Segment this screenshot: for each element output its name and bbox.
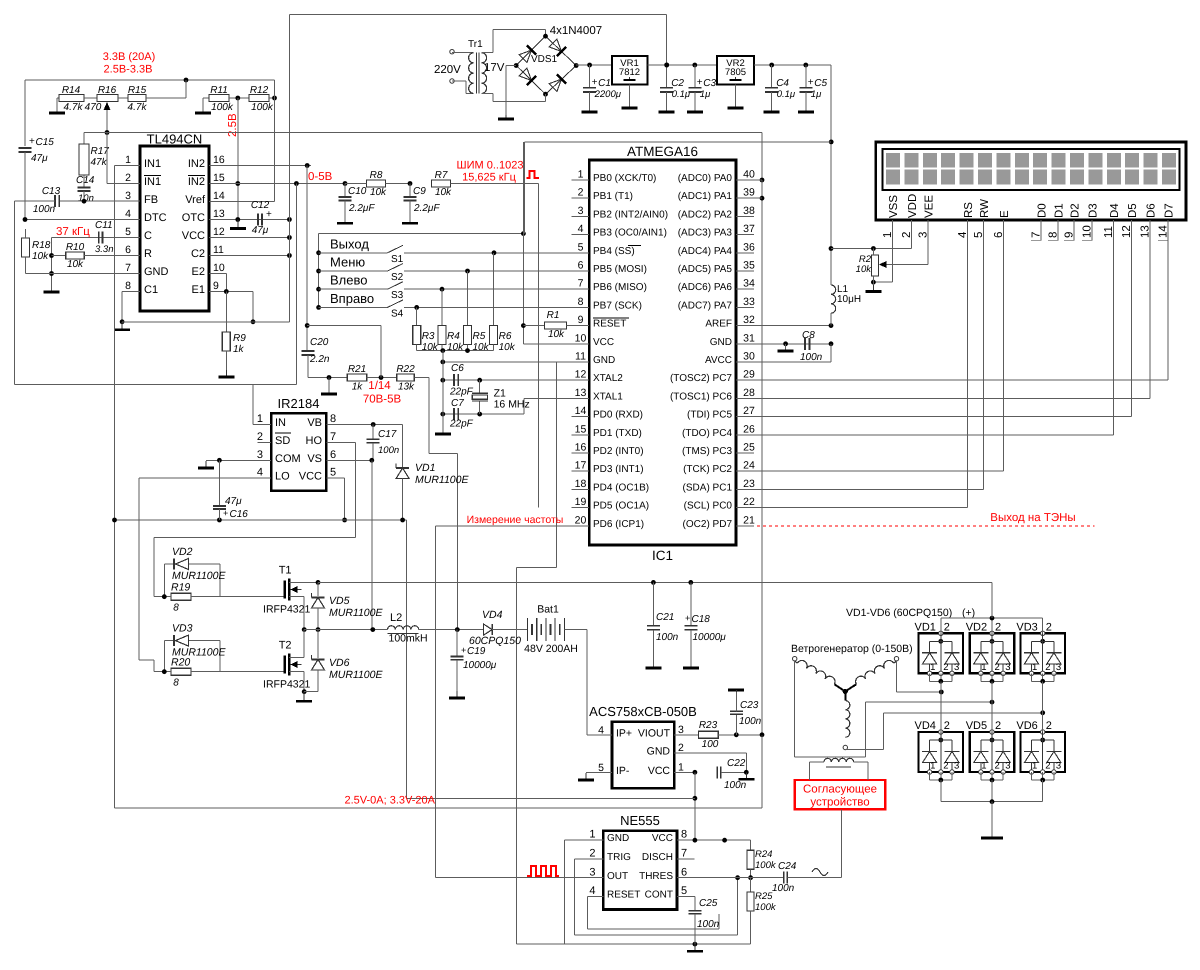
svg-text:VD3: VD3 <box>172 623 193 635</box>
svg-text:40: 40 <box>743 169 755 181</box>
svg-text:D5: D5 <box>1127 203 1139 218</box>
svg-text:VCC: VCC <box>299 471 322 483</box>
svg-text:R21: R21 <box>348 364 366 375</box>
svg-text:2: 2 <box>589 848 595 860</box>
svg-text:37: 37 <box>743 223 755 235</box>
svg-text:2: 2 <box>1045 662 1050 673</box>
svg-text:VEE: VEE <box>923 195 935 218</box>
svg-text:16: 16 <box>575 442 587 454</box>
svg-text:7812: 7812 <box>619 67 640 78</box>
svg-text:10000μ: 10000μ <box>463 660 497 671</box>
svg-text:C8: C8 <box>802 330 815 341</box>
svg-text:IN1: IN1 <box>144 158 161 170</box>
svg-text:6: 6 <box>578 260 584 272</box>
svg-text:100mkH: 100mkH <box>389 633 428 645</box>
svg-text:15: 15 <box>213 172 225 184</box>
svg-text:Меню: Меню <box>330 255 365 270</box>
svg-text:Согласующее: Согласующее <box>803 784 877 796</box>
svg-text:R3: R3 <box>422 331 435 342</box>
svg-text:7: 7 <box>330 431 336 443</box>
svg-text:10k: 10k <box>435 187 452 198</box>
svg-text:C: C <box>144 230 152 242</box>
svg-text:22pF: 22pF <box>449 387 474 398</box>
svg-text:R24: R24 <box>755 849 772 860</box>
svg-text:220V: 220V <box>434 64 461 76</box>
svg-text:4: 4 <box>578 223 584 235</box>
svg-text:28: 28 <box>743 387 755 399</box>
svg-text:13k: 13k <box>398 382 415 393</box>
svg-text:R19: R19 <box>171 582 190 594</box>
svg-text:33: 33 <box>743 296 755 308</box>
svg-text:C4: C4 <box>776 78 789 89</box>
svg-text:470: 470 <box>85 102 102 113</box>
svg-text:4: 4 <box>589 885 595 897</box>
svg-text:2: 2 <box>995 720 1001 732</box>
svg-text:VD2: VD2 <box>966 621 987 633</box>
svg-text:PD1 (TXD): PD1 (TXD) <box>593 428 642 439</box>
svg-text:IN1: IN1 <box>144 176 161 188</box>
svg-text:R16: R16 <box>98 85 117 96</box>
svg-text:(ADC0) PA0: (ADC0) PA0 <box>678 173 733 184</box>
svg-text:3: 3 <box>954 761 959 772</box>
svg-text:+: + <box>685 613 690 623</box>
svg-text:C2: C2 <box>671 78 684 89</box>
svg-text:100n: 100n <box>697 919 720 930</box>
svg-text:GND: GND <box>144 266 169 278</box>
svg-text:9: 9 <box>213 280 219 292</box>
svg-text:14: 14 <box>575 405 587 417</box>
svg-text:4: 4 <box>125 208 131 220</box>
svg-text:34: 34 <box>743 278 755 290</box>
svg-text:36: 36 <box>743 241 755 253</box>
svg-text:IN: IN <box>275 417 286 429</box>
svg-text:C10: C10 <box>348 186 367 197</box>
svg-text:L2: L2 <box>390 612 402 624</box>
svg-text:GND: GND <box>607 833 629 844</box>
svg-text:(SDA) PC1: (SDA) PC1 <box>683 482 733 493</box>
svg-text:GND: GND <box>647 746 671 758</box>
svg-text:2: 2 <box>943 761 948 772</box>
svg-text:ШИМ 0..1023: ШИМ 0..1023 <box>457 160 524 172</box>
svg-text:AVCC: AVCC <box>705 355 732 366</box>
svg-text:IP-: IP- <box>616 765 630 777</box>
svg-text:Tr1: Tr1 <box>468 39 483 50</box>
svg-text:C15: C15 <box>36 137 55 148</box>
svg-text:VDD: VDD <box>907 194 919 218</box>
svg-text:D6: D6 <box>1145 203 1157 218</box>
svg-text:3: 3 <box>1056 761 1061 772</box>
svg-text:VD3: VD3 <box>1016 621 1037 633</box>
svg-text:R18: R18 <box>32 240 51 251</box>
svg-text:1: 1 <box>125 154 131 166</box>
svg-text:C23: C23 <box>740 700 759 711</box>
svg-text:100: 100 <box>702 739 719 750</box>
svg-text:VCC: VCC <box>593 337 614 348</box>
svg-text:2.5В-3.3В: 2.5В-3.3В <box>104 64 153 76</box>
svg-text:R11: R11 <box>210 85 228 96</box>
svg-text:100n: 100n <box>33 204 56 215</box>
svg-text:+: + <box>808 77 814 88</box>
svg-text:VCC: VCC <box>648 765 671 777</box>
svg-text:1: 1 <box>257 413 263 425</box>
svg-text:D4: D4 <box>1109 203 1121 218</box>
svg-text:2.5V-0A; 3.3V-20A: 2.5V-0A; 3.3V-20A <box>345 795 436 807</box>
svg-text:1/14: 1/14 <box>368 380 391 392</box>
svg-text:10k: 10k <box>32 251 49 262</box>
svg-text:LO: LO <box>275 471 290 483</box>
svg-text:Ветрогенератор (0-150В): Ветрогенератор (0-150В) <box>791 643 913 655</box>
svg-text:VD4: VD4 <box>915 720 936 732</box>
svg-text:PB3 (OC0/AIN1): PB3 (OC0/AIN1) <box>593 228 667 239</box>
svg-text:R22: R22 <box>396 364 415 375</box>
svg-text:100n: 100n <box>800 352 823 363</box>
svg-text:8: 8 <box>173 678 179 689</box>
svg-text:47k: 47k <box>91 157 108 168</box>
svg-text:26: 26 <box>743 423 755 435</box>
svg-text:IN2: IN2 <box>188 176 205 188</box>
svg-text:4x1N4007: 4x1N4007 <box>550 25 602 37</box>
svg-text:6: 6 <box>125 244 131 256</box>
svg-text:8: 8 <box>330 413 336 425</box>
svg-text:15,625 кГц: 15,625 кГц <box>462 172 516 184</box>
svg-text:1k: 1k <box>352 382 364 393</box>
svg-text:S3: S3 <box>391 290 404 301</box>
svg-text:100k: 100k <box>251 102 274 113</box>
svg-text:+: + <box>223 508 228 518</box>
svg-text:3.3В (20А): 3.3В (20А) <box>103 51 156 63</box>
svg-text:2.2μF: 2.2μF <box>348 203 375 214</box>
svg-text:DTC: DTC <box>144 212 167 224</box>
svg-text:MUR1100E: MUR1100E <box>329 669 383 681</box>
svg-text:14: 14 <box>213 190 225 202</box>
svg-text:Измерение частоты: Измерение частоты <box>467 514 564 526</box>
svg-text:2: 2 <box>1045 761 1050 772</box>
svg-text:10k: 10k <box>856 264 873 275</box>
svg-text:2: 2 <box>995 662 1000 673</box>
svg-text:10k: 10k <box>548 329 565 340</box>
svg-text:22pF: 22pF <box>449 419 474 430</box>
svg-text:27: 27 <box>743 405 755 417</box>
svg-text:D2: D2 <box>1070 203 1082 218</box>
svg-text:2: 2 <box>678 742 684 754</box>
svg-text:+: + <box>461 645 466 655</box>
svg-text:47μ: 47μ <box>225 496 242 507</box>
svg-text:38: 38 <box>743 205 755 217</box>
svg-text:D0: D0 <box>1037 203 1049 218</box>
svg-text:PD6 (ICP1): PD6 (ICP1) <box>593 519 644 530</box>
svg-text:Влево: Влево <box>330 273 367 288</box>
svg-text:C14: C14 <box>76 175 95 186</box>
svg-text:GND: GND <box>710 337 732 348</box>
svg-text:48V 200AH: 48V 200AH <box>524 643 578 655</box>
svg-text:100k: 100k <box>211 102 234 113</box>
svg-text:0.1μ: 0.1μ <box>777 89 796 100</box>
svg-text:PB7 (SCK): PB7 (SCK) <box>593 300 642 311</box>
svg-text:TRIG: TRIG <box>607 852 631 863</box>
svg-text:VD5: VD5 <box>329 595 350 607</box>
svg-text:3: 3 <box>257 449 263 461</box>
svg-text:2: 2 <box>257 431 263 443</box>
svg-text:(ADC6) PA6: (ADC6) PA6 <box>678 282 733 293</box>
svg-text:5: 5 <box>681 885 687 897</box>
svg-text:C22: C22 <box>727 758 746 769</box>
svg-text:(TOSC1) PC6: (TOSC1) PC6 <box>670 391 732 402</box>
svg-text:1: 1 <box>578 169 584 181</box>
svg-text:100n: 100n <box>378 445 399 456</box>
svg-text:17V: 17V <box>484 62 505 74</box>
svg-text:R: R <box>144 248 152 260</box>
svg-text:PD0 (RXD): PD0 (RXD) <box>593 410 643 421</box>
svg-text:9: 9 <box>578 314 584 326</box>
svg-text:16: 16 <box>213 154 225 166</box>
svg-text:HO: HO <box>306 435 323 447</box>
svg-text:12: 12 <box>213 226 225 238</box>
svg-text:VD4: VD4 <box>482 609 503 621</box>
svg-text:R8: R8 <box>370 170 383 181</box>
svg-text:+: + <box>266 209 272 220</box>
svg-text:D1: D1 <box>1054 203 1066 218</box>
svg-text:3: 3 <box>954 662 959 673</box>
svg-text:+: + <box>697 77 703 88</box>
svg-text:S4: S4 <box>391 308 404 319</box>
svg-text:100n: 100n <box>772 883 795 894</box>
svg-text:7: 7 <box>681 848 687 860</box>
svg-text:6: 6 <box>681 866 687 878</box>
svg-text:100n: 100n <box>724 780 747 791</box>
svg-text:SD: SD <box>275 435 290 447</box>
svg-text:18: 18 <box>575 478 587 490</box>
svg-text:(ADC2) PA2: (ADC2) PA2 <box>678 209 733 220</box>
svg-text:10: 10 <box>575 332 587 344</box>
svg-text:D3: D3 <box>1088 203 1100 218</box>
svg-text:7: 7 <box>125 262 131 274</box>
svg-text:NE555: NE555 <box>620 813 660 828</box>
svg-text:PD2 (INT0): PD2 (INT0) <box>593 446 644 457</box>
svg-text:VS: VS <box>307 453 322 465</box>
svg-text:(ADC5) PA5: (ADC5) PA5 <box>678 264 733 275</box>
svg-text:C20: C20 <box>310 337 329 348</box>
svg-text:24: 24 <box>743 460 755 472</box>
svg-text:Bat1: Bat1 <box>537 604 559 616</box>
svg-text:4: 4 <box>257 467 263 479</box>
svg-text:11: 11 <box>213 244 224 256</box>
svg-text:VD1-VD6 (60CPQ150): VD1-VD6 (60CPQ150) <box>846 607 952 619</box>
svg-text:30: 30 <box>743 351 755 363</box>
svg-text:(ADC3) PA3: (ADC3) PA3 <box>678 228 733 239</box>
svg-text:2: 2 <box>944 621 950 633</box>
svg-text:THRES: THRES <box>639 871 673 882</box>
svg-text:(TOSC2) PC7: (TOSC2) PC7 <box>670 373 732 384</box>
svg-text:1: 1 <box>589 829 595 841</box>
svg-text:E1: E1 <box>192 284 205 296</box>
svg-text:VIOUT: VIOUT <box>638 727 671 739</box>
svg-text:+: + <box>592 77 598 88</box>
svg-text:AREF: AREF <box>705 319 732 330</box>
svg-text:VD5: VD5 <box>966 720 987 732</box>
svg-text:PD3 (INT1): PD3 (INT1) <box>593 464 644 475</box>
svg-text:R15: R15 <box>128 85 147 96</box>
svg-text:VD6: VD6 <box>329 657 350 669</box>
svg-text:25: 25 <box>743 442 755 454</box>
svg-text:10k: 10k <box>67 259 84 270</box>
svg-text:2.2n: 2.2n <box>309 354 330 365</box>
svg-text:29: 29 <box>743 369 755 381</box>
svg-text:35: 35 <box>743 260 755 272</box>
svg-text:GND: GND <box>593 355 615 366</box>
svg-text:VD1: VD1 <box>415 462 435 474</box>
svg-text:15: 15 <box>575 423 587 435</box>
svg-text:C6: C6 <box>451 363 464 374</box>
svg-text:MUR1100E: MUR1100E <box>172 570 226 582</box>
svg-text:C2: C2 <box>191 248 205 260</box>
svg-text:3: 3 <box>1056 662 1061 673</box>
svg-text:6: 6 <box>330 449 336 461</box>
svg-text:FB: FB <box>144 194 158 206</box>
svg-text:2: 2 <box>943 662 948 673</box>
svg-text:1: 1 <box>678 761 684 773</box>
svg-text:C24: C24 <box>778 861 797 872</box>
svg-text:R12: R12 <box>250 85 269 96</box>
svg-text:R6: R6 <box>499 331 512 342</box>
svg-text:20: 20 <box>575 514 587 526</box>
svg-text:VD6: VD6 <box>1016 720 1037 732</box>
svg-text:100n: 100n <box>656 632 679 643</box>
svg-text:(TDI) PC5: (TDI) PC5 <box>687 410 732 421</box>
svg-text:2: 2 <box>578 187 584 199</box>
svg-text:IRFP4321: IRFP4321 <box>263 679 310 691</box>
svg-text:2: 2 <box>995 761 1000 772</box>
svg-text:IRFP4321: IRFP4321 <box>263 604 310 616</box>
svg-text:XTAL1: XTAL1 <box>593 391 623 402</box>
svg-text:R23: R23 <box>699 720 718 731</box>
svg-text:R25: R25 <box>755 891 773 902</box>
svg-text:C7: C7 <box>451 398 464 409</box>
svg-text:VDS1: VDS1 <box>531 54 558 65</box>
svg-text:VCC: VCC <box>652 833 673 844</box>
svg-text:VD2: VD2 <box>172 546 193 558</box>
svg-text:3: 3 <box>1005 761 1010 772</box>
svg-text:R9: R9 <box>233 333 246 344</box>
svg-text:RS: RS <box>963 202 975 218</box>
svg-text:Выход на ТЭНы: Выход на ТЭНы <box>990 512 1075 524</box>
svg-text:IN2: IN2 <box>188 158 205 170</box>
svg-text:4.7k: 4.7k <box>128 102 148 113</box>
svg-text:11: 11 <box>575 351 586 363</box>
svg-text:(ADC4) PA4: (ADC4) PA4 <box>678 246 733 257</box>
svg-text:RW: RW <box>979 199 991 218</box>
svg-text:S2: S2 <box>391 272 404 283</box>
svg-text:Вправо: Вправо <box>330 291 374 306</box>
svg-text:5: 5 <box>125 226 131 238</box>
svg-text:PB0 (XCK/T0): PB0 (XCK/T0) <box>593 173 656 184</box>
svg-text:13: 13 <box>213 208 225 220</box>
svg-text:PB1 (T1): PB1 (T1) <box>593 191 633 202</box>
svg-text:C17: C17 <box>378 429 397 440</box>
svg-text:C11: C11 <box>95 220 113 231</box>
svg-text:C19: C19 <box>467 646 486 657</box>
svg-text:R4: R4 <box>447 331 460 342</box>
svg-text:DISCH: DISCH <box>642 852 673 863</box>
svg-text:5: 5 <box>330 467 336 479</box>
svg-text:3: 3 <box>125 190 131 202</box>
svg-text:10k: 10k <box>370 187 387 198</box>
svg-text:10k: 10k <box>473 342 490 353</box>
svg-text:5: 5 <box>578 241 584 253</box>
svg-text:0-5В: 0-5В <box>308 171 333 183</box>
svg-text:1k: 1k <box>233 344 245 355</box>
svg-text:2: 2 <box>1046 720 1052 732</box>
svg-text:2.5В: 2.5В <box>227 113 239 137</box>
svg-text:1μ: 1μ <box>811 89 822 100</box>
svg-text:VD1: VD1 <box>915 621 936 633</box>
svg-text:CONT: CONT <box>645 890 673 901</box>
svg-text:100k: 100k <box>755 860 777 871</box>
svg-text:(+): (+) <box>962 607 975 619</box>
svg-text:2: 2 <box>944 720 950 732</box>
svg-text:E: E <box>999 210 1011 218</box>
svg-text:R20: R20 <box>171 657 190 669</box>
svg-text:ACS758xCB-050B: ACS758xCB-050B <box>589 704 697 719</box>
svg-text:4.7k: 4.7k <box>64 102 84 113</box>
svg-text:C1: C1 <box>144 284 158 296</box>
svg-text:(TDO) PC4: (TDO) PC4 <box>682 428 732 439</box>
svg-text:1μ: 1μ <box>700 89 711 100</box>
svg-text:ATMEGA16: ATMEGA16 <box>627 144 698 159</box>
svg-text:0.1μ: 0.1μ <box>672 89 691 100</box>
svg-text:17: 17 <box>575 460 587 472</box>
svg-text:3.3n: 3.3n <box>95 244 114 255</box>
svg-text:47μ: 47μ <box>252 225 269 236</box>
svg-text:PD4 (OC1B): PD4 (OC1B) <box>593 482 649 493</box>
svg-text:C16: C16 <box>230 509 249 520</box>
svg-text:IC1: IC1 <box>652 548 673 563</box>
svg-text:RESET: RESET <box>593 319 626 330</box>
svg-text:R7: R7 <box>435 170 448 181</box>
svg-text:IP+: IP+ <box>616 727 632 739</box>
svg-text:R1: R1 <box>547 310 560 321</box>
svg-text:+: + <box>29 136 35 147</box>
svg-text:47μ: 47μ <box>31 153 48 164</box>
svg-text:COM: COM <box>275 453 301 465</box>
svg-text:70В-5В: 70В-5В <box>363 394 402 406</box>
svg-text:R5: R5 <box>473 331 486 342</box>
svg-text:RESET: RESET <box>607 890 640 901</box>
svg-text:(TMS) PC3: (TMS) PC3 <box>682 446 732 457</box>
svg-text:R10: R10 <box>66 242 85 253</box>
svg-text:2.2μF: 2.2μF <box>413 203 440 214</box>
svg-text:PD5 (OC1A): PD5 (OC1A) <box>593 501 649 512</box>
svg-text:C25: C25 <box>699 898 718 909</box>
svg-text:10000μ: 10000μ <box>693 632 727 643</box>
svg-text:VB: VB <box>307 417 322 429</box>
svg-text:39: 39 <box>743 187 755 199</box>
svg-text:3: 3 <box>1005 662 1010 673</box>
svg-text:22: 22 <box>743 496 755 508</box>
svg-text:10k: 10k <box>499 342 516 353</box>
svg-text:12: 12 <box>575 369 587 381</box>
svg-text:8: 8 <box>173 603 179 614</box>
svg-text:Vref: Vref <box>185 194 206 206</box>
svg-text:PB5 (MOSI): PB5 (MOSI) <box>593 264 647 275</box>
svg-text:32: 32 <box>743 314 755 326</box>
svg-text:3: 3 <box>589 866 595 878</box>
svg-text:MUR1100E: MUR1100E <box>415 474 469 486</box>
svg-text:10k: 10k <box>447 342 464 353</box>
svg-text:2: 2 <box>1046 621 1052 633</box>
svg-text:10k: 10k <box>422 342 439 353</box>
svg-text:8: 8 <box>681 829 687 841</box>
svg-text:T2: T2 <box>279 640 292 652</box>
